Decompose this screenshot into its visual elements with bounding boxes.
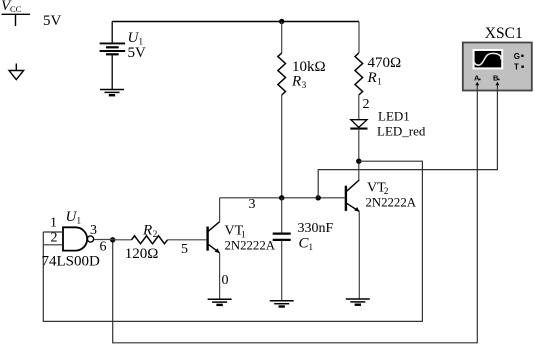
svg-text:2N2222A: 2N2222A <box>225 239 276 253</box>
svg-text:LED1: LED1 <box>378 109 410 124</box>
oscilloscope XSC1 <box>463 43 532 91</box>
resistor R2 <box>132 236 168 244</box>
svg-text:470Ω: 470Ω <box>368 55 402 71</box>
svg-text:3: 3 <box>90 223 97 238</box>
resistor R3 <box>278 53 286 95</box>
svg-text:R: R <box>142 223 152 239</box>
ground (VT2) <box>346 299 370 305</box>
svg-text:1: 1 <box>309 242 314 252</box>
svg-text:2: 2 <box>153 229 158 239</box>
wire R3 bottom to node 3 <box>281 95 283 198</box>
junction node at top rail / R3 <box>279 19 284 24</box>
svg-text:5V: 5V <box>43 13 62 29</box>
wire VT2 emitter to ground <box>358 212 360 299</box>
ground (VT1) <box>208 299 232 305</box>
svg-text:1: 1 <box>77 216 82 226</box>
junction node 3 / scope B tap <box>316 195 321 200</box>
svg-text:LED_red: LED_red <box>377 124 426 139</box>
battery U1 <box>100 22 126 90</box>
svg-text:6: 6 <box>100 240 107 255</box>
wire LED to VT2 collector <box>358 129 360 180</box>
ground (floating, top-left, triangle style) <box>9 64 24 80</box>
wire VT1 emitter to ground <box>219 253 221 299</box>
wire R2 to VT1 base <box>168 239 207 241</box>
transistor VT1 <box>208 198 220 253</box>
svg-text:3: 3 <box>302 80 307 90</box>
junction node LED / feedback <box>356 159 361 164</box>
svg-text:CC: CC <box>10 4 22 14</box>
svg-text:T: T <box>514 62 519 71</box>
NAND gate U1 74LS00D <box>63 227 94 250</box>
svg-text:1: 1 <box>377 77 382 87</box>
svg-text:120Ω: 120Ω <box>125 246 159 262</box>
junction node 3 / C1 <box>279 195 284 200</box>
resistor R1 <box>355 53 363 95</box>
wire R3 top <box>281 22 283 54</box>
wire top rail <box>112 21 359 23</box>
svg-text:2: 2 <box>51 231 58 246</box>
wire NAND output to node 6 <box>94 239 113 241</box>
svg-text:XSC1: XSC1 <box>485 25 523 42</box>
wire scope channel B <box>318 91 497 198</box>
svg-text:0: 0 <box>222 273 229 288</box>
capacitor C1 <box>273 198 291 301</box>
wire R1 top <box>358 22 360 54</box>
svg-text:5: 5 <box>181 242 188 257</box>
svg-text:R: R <box>367 70 377 86</box>
pin 2 wire <box>43 244 63 246</box>
pin 1 wire <box>43 231 63 233</box>
svg-text:5V: 5V <box>128 45 147 61</box>
transistor VT2 <box>346 180 359 212</box>
wire feedback loop (LED node to NAND inputs) <box>43 161 422 321</box>
junction node 6 <box>110 237 115 242</box>
svg-text:3: 3 <box>249 197 256 212</box>
power symbol VCC <box>2 14 31 26</box>
svg-text:A: A <box>474 74 480 83</box>
svg-text:B: B <box>493 74 499 83</box>
svg-text:2N2222A: 2N2222A <box>366 196 417 210</box>
wire scope channel A <box>113 91 478 343</box>
wire node 3 horizontal <box>220 197 346 199</box>
wire R1 to LED <box>358 95 360 120</box>
LED LED1 <box>350 120 367 129</box>
ground (C1) <box>270 301 294 307</box>
svg-text:R: R <box>291 74 301 90</box>
ground (battery) <box>100 90 124 96</box>
svg-text:2: 2 <box>363 97 370 112</box>
wire node6 to R2 <box>113 239 132 241</box>
svg-text:1: 1 <box>50 215 57 230</box>
svg-text:74LS00D: 74LS00D <box>42 254 101 270</box>
svg-text:330nF: 330nF <box>298 221 334 236</box>
svg-text:G: G <box>514 52 520 61</box>
